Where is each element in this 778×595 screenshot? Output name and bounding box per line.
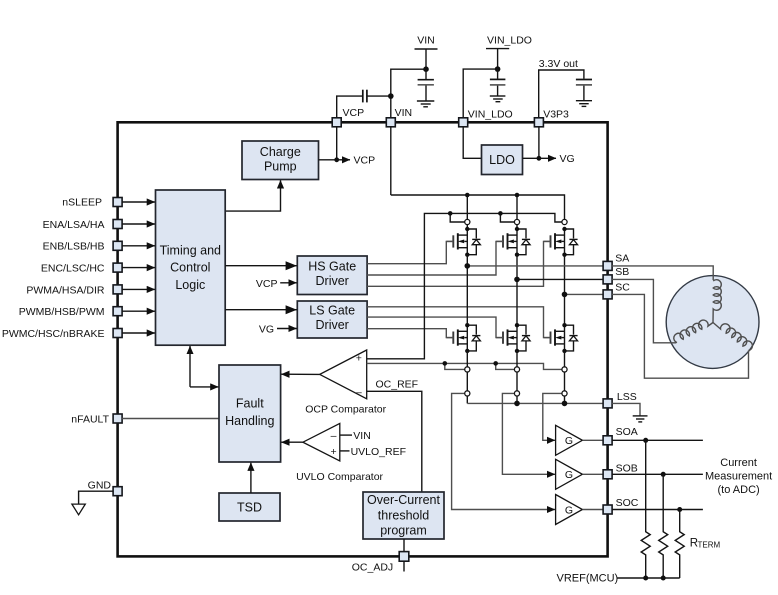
net label VIN (UVLO minus input) bbox=[340, 434, 352, 436]
pin SB (right border) bbox=[603, 275, 612, 284]
wire VIN rail drop to Q2 bbox=[516, 195, 518, 229]
wire over-current block to OC_ADJ pin bbox=[403, 539, 405, 552]
wire G3 output to SOC pin bbox=[582, 509, 603, 511]
svg-text:VIN_LDO: VIN_LDO bbox=[468, 108, 513, 120]
svg-text:Fault: Fault bbox=[236, 397, 264, 411]
pin SC (right border) bbox=[603, 290, 612, 299]
pin PWMC/HSC/nBRAKE bbox=[113, 329, 122, 338]
svg-text:LDO: LDO bbox=[489, 153, 515, 167]
svg-text:PWMA/HSA/DIR: PWMA/HSA/DIR bbox=[26, 284, 105, 296]
wire VIN flag to VIN pin bbox=[391, 69, 426, 118]
svg-text:–: – bbox=[356, 386, 362, 398]
wire rail elbow to Q4 source circle bbox=[445, 363, 465, 369]
wire LDO output to VG bbox=[523, 157, 539, 159]
wire sense tap to SOB amp bbox=[502, 393, 555, 474]
svg-text:Logic: Logic bbox=[175, 278, 205, 292]
wire VREF net bbox=[617, 577, 680, 579]
wire ENA to timing logic bbox=[122, 223, 155, 225]
svg-text:TERM: TERM bbox=[698, 541, 721, 550]
wire PWMB to timing logic bbox=[122, 310, 155, 312]
wire SC net to pin bbox=[565, 293, 604, 295]
op-amp G1 (SOA current sense) bbox=[556, 425, 583, 455]
resistor R_TERM A bbox=[641, 440, 650, 578]
svg-text:UVLO_REF: UVLO_REF bbox=[351, 446, 406, 458]
pin PWMB/HSB/PWM bbox=[113, 307, 122, 316]
node VREF junction A bbox=[643, 576, 648, 581]
svg-text:SB: SB bbox=[615, 266, 629, 278]
node terminal circle amp tap B bbox=[514, 391, 519, 396]
pin VIN (top border) bbox=[386, 118, 395, 127]
wire LS driver output 2 to Q5 gate bbox=[367, 317, 503, 338]
wire VCP cap to VIN feed bbox=[367, 95, 391, 97]
wire SA net to pin bbox=[467, 265, 603, 267]
node terminal circle amp tap C bbox=[562, 391, 567, 396]
wire OC_REF (OCP minus input to over-current block) bbox=[367, 391, 422, 492]
wire timing to fault handling (double arrow) bbox=[189, 346, 191, 387]
block TSD bbox=[219, 493, 280, 521]
wire HS driver output 1 to Q1 gate bbox=[367, 241, 453, 263]
wire VIN rail drop to Q1 bbox=[466, 195, 468, 229]
pin PWMA/HSA/DIR bbox=[113, 285, 122, 294]
wire LS source verticals down to LSS rail bbox=[466, 351, 468, 404]
svg-text:PWMB/HSB/PWM: PWMB/HSB/PWM bbox=[19, 306, 105, 318]
node rail2 junction B bbox=[498, 211, 503, 216]
node LSS junction C bbox=[562, 401, 568, 407]
wire sense tap to SOA amp bbox=[543, 393, 562, 440]
pin VIN_LDO (top border) bbox=[459, 118, 468, 127]
node LSS junction B bbox=[514, 401, 520, 407]
wire sense tap to SOC amp bbox=[452, 393, 555, 509]
capacitor 3.3V out bbox=[576, 80, 592, 101]
svg-text:(to ADC): (to ADC) bbox=[718, 484, 760, 496]
wire LS driver output 1 to Q6 gate bbox=[367, 307, 550, 338]
svg-text:program: program bbox=[380, 524, 427, 538]
wire LSS pin to ground bbox=[612, 403, 640, 415]
ground (VIN cap) bbox=[417, 101, 434, 107]
op-amp G3 (SOC current sense) bbox=[556, 495, 583, 525]
svg-text:VREF(MCU): VREF(MCU) bbox=[557, 572, 619, 584]
transistor Q5 (low-side B, with body diode) bbox=[496, 323, 530, 353]
node sense rail junction B bbox=[493, 361, 498, 366]
ground (3.3V cap) bbox=[576, 101, 592, 107]
transistor Q6 (low-side C, with body diode) bbox=[544, 323, 578, 353]
resistor R_TERM C bbox=[675, 510, 684, 579]
block LDO bbox=[482, 145, 523, 175]
wire VIN pin into bridge bbox=[390, 127, 392, 195]
svg-text:SOA: SOA bbox=[616, 426, 638, 438]
wire HS driver output 2 to Q2 gate bbox=[367, 241, 503, 275]
wire phase C vertical bbox=[564, 255, 566, 326]
svg-text:–: – bbox=[331, 430, 337, 442]
wire TSD to fault handling bbox=[250, 463, 252, 493]
svg-text:ENB/LSB/HB: ENB/LSB/HB bbox=[43, 241, 105, 253]
block Over-Current threshold program bbox=[363, 492, 444, 539]
node cap/VIN feed junction bbox=[388, 93, 394, 99]
capacitor VIN bypass bbox=[418, 69, 434, 100]
svg-text:SA: SA bbox=[615, 252, 629, 264]
wire VIN_LDO flag to VIN_LDO pin bbox=[463, 69, 497, 118]
pin LSS (right border) bbox=[603, 399, 612, 408]
svg-text:OC_REF: OC_REF bbox=[376, 378, 419, 390]
svg-text:Timing and: Timing and bbox=[160, 243, 221, 257]
pin GND bbox=[113, 487, 122, 496]
block LS Gate Driver bbox=[297, 301, 367, 338]
svg-text:VG: VG bbox=[259, 323, 274, 335]
wire SB pin to motor winding B bbox=[612, 279, 676, 342]
power flag VIN (top) bbox=[415, 35, 438, 70]
svg-text:Driver: Driver bbox=[316, 274, 349, 288]
svg-text:G: G bbox=[565, 435, 573, 447]
block Timing and Control Logic bbox=[156, 190, 226, 345]
svg-text:OC_ADJ: OC_ADJ bbox=[352, 561, 393, 573]
svg-text:PWMC/HSC/nBRAKE: PWMC/HSC/nBRAKE bbox=[2, 328, 105, 340]
wire SA pin to motor winding A bbox=[612, 266, 713, 280]
wire SC pin to motor winding C bbox=[612, 294, 749, 378]
wire VCP pin to charge pump output bbox=[336, 127, 338, 160]
svg-text:VCP: VCP bbox=[256, 278, 278, 290]
power flag VIN_LDO (top) bbox=[486, 35, 532, 70]
pin ENA/LSA/HA bbox=[113, 220, 122, 229]
inductor winding A bbox=[713, 280, 721, 323]
pin SOB (right border) bbox=[603, 470, 612, 479]
wire OCP plus sense rail (bottom, to LS sources) bbox=[367, 363, 562, 369]
wire SOB to ADC bbox=[612, 473, 703, 475]
wire GND pin to ground symbol bbox=[79, 491, 114, 503]
wire nSLEEP to timing logic bbox=[122, 201, 155, 203]
node VIN_LDO junction bbox=[495, 66, 501, 72]
wire SB net to pin bbox=[517, 278, 603, 280]
node rail2 junction A bbox=[448, 211, 453, 216]
capacitor VIN_LDO bypass bbox=[490, 69, 506, 95]
wire nFAULT to fault handling bbox=[122, 418, 219, 420]
svg-text:Current: Current bbox=[720, 457, 757, 469]
svg-text:VIN: VIN bbox=[395, 107, 413, 119]
svg-text:G: G bbox=[565, 504, 573, 516]
node terminal circle Q3 drain bbox=[562, 219, 567, 224]
wire rail elbow to Q1 drain circle bbox=[450, 213, 465, 222]
block Charge Pump bbox=[242, 141, 319, 180]
node sense rail junction A bbox=[443, 361, 448, 366]
wire ENC to timing logic bbox=[122, 267, 155, 269]
node terminal circle Q2 drain bbox=[514, 219, 519, 224]
wire V3P3 pin to LDO output bbox=[538, 127, 540, 159]
svg-text:nSLEEP: nSLEEP bbox=[62, 196, 102, 208]
wire OCP comparator output to fault handling bbox=[281, 373, 319, 375]
op-amp G2 (SOB current sense) bbox=[556, 459, 583, 489]
svg-text:LSS: LSS bbox=[617, 391, 637, 403]
node VREF junction B bbox=[661, 576, 666, 581]
node SOB/RTERM junction bbox=[661, 472, 666, 477]
node SOC/RTERM junction bbox=[677, 507, 682, 512]
node VIN top junction bbox=[423, 66, 429, 72]
svg-text:SC: SC bbox=[615, 281, 630, 293]
wire phase B vertical bbox=[516, 255, 518, 326]
transistor Q4 (low-side A, with body diode) bbox=[446, 323, 480, 353]
wire OCP plus sense rail (top, to HS drains) bbox=[367, 213, 562, 358]
node terminal circle Q5 source tap bbox=[514, 367, 519, 372]
pin SOA (right border) bbox=[603, 436, 612, 445]
wire LSS rail bbox=[467, 402, 603, 404]
svg-text:SOB: SOB bbox=[616, 463, 638, 475]
wire HS driver output 3 to Q3 gate bbox=[367, 241, 550, 286]
svg-text:GND: GND bbox=[88, 479, 112, 491]
wire VIN rail (bridge top) bbox=[391, 195, 565, 219]
wire PWMA to timing logic bbox=[122, 288, 155, 290]
op-amp OCP comparator bbox=[320, 350, 367, 399]
node VIN rail junction B bbox=[515, 193, 520, 198]
svg-text:G: G bbox=[565, 469, 573, 481]
wire UVLO output to fault handling bbox=[281, 441, 303, 443]
svg-text:nFAULT: nFAULT bbox=[71, 413, 109, 425]
node SC junction bbox=[562, 292, 568, 298]
svg-text:Over-Current: Over-Current bbox=[367, 493, 440, 507]
annotation Current Measurement (to ADC) bbox=[705, 457, 772, 496]
pin VCP (top border) bbox=[332, 118, 341, 127]
svg-text:Handling: Handling bbox=[225, 414, 274, 428]
svg-text:OCP Comparator: OCP Comparator bbox=[305, 404, 386, 416]
wire charge pump output to VCP net bbox=[319, 159, 337, 161]
svg-text:ENC/LSC/HC: ENC/LSC/HC bbox=[41, 263, 105, 275]
node terminal circle Q1 drain bbox=[465, 219, 470, 224]
svg-text:VIN_LDO: VIN_LDO bbox=[487, 35, 532, 47]
svg-text:threshold: threshold bbox=[378, 508, 429, 522]
block HS Gate Driver bbox=[297, 256, 367, 295]
wire timing bus to HS gate driver bbox=[225, 265, 296, 267]
node terminal circle Q4 source tap bbox=[465, 367, 470, 372]
wire PWMC to timing logic bbox=[122, 332, 155, 334]
ground (LSS) bbox=[633, 416, 648, 422]
wire ENB to timing logic bbox=[122, 245, 155, 247]
node SOA/RTERM junction bbox=[643, 438, 648, 443]
wire SOA to ADC bbox=[612, 439, 703, 441]
node VIN rail junction A bbox=[465, 193, 470, 198]
inductor winding B bbox=[674, 320, 713, 343]
wire G1 output to SOA pin bbox=[582, 439, 603, 441]
svg-text:+: + bbox=[331, 446, 337, 458]
pin ENC/LSC/HC bbox=[113, 263, 122, 272]
node terminal circle amp tap A bbox=[465, 391, 470, 396]
wire VCP cap to VCP pin bbox=[337, 96, 363, 118]
wire 3.3V out to V3P3 pin and cap bbox=[539, 70, 584, 118]
transistor Q3 (high-side C, with body diode) bbox=[544, 227, 578, 257]
pin ENB/LSB/HB bbox=[113, 241, 122, 250]
svg-text:ENA/LSA/HA: ENA/LSA/HA bbox=[43, 219, 105, 231]
inductor winding C bbox=[713, 323, 752, 351]
capacitor VCP charge-pump (between VCP and VIN) bbox=[363, 90, 367, 103]
wire rail elbow to Q2 drain circle bbox=[500, 213, 514, 222]
node SA junction bbox=[465, 263, 471, 269]
pin SA (right border) bbox=[603, 261, 612, 270]
node terminal circle Q6 source tap bbox=[562, 367, 567, 372]
pin nFAULT bbox=[113, 414, 122, 423]
wire LS driver output 3 to Q4 gate bbox=[367, 329, 453, 338]
svg-text:+: + bbox=[356, 353, 362, 365]
svg-text:HS Gate: HS Gate bbox=[308, 259, 356, 273]
wire timing bus to LS gate driver bbox=[225, 309, 296, 311]
pin SOC (right border) bbox=[603, 505, 612, 514]
op-amp UVLO comparator bbox=[303, 423, 340, 461]
svg-text:VG: VG bbox=[560, 153, 575, 165]
svg-text:3.3V out: 3.3V out bbox=[539, 58, 578, 70]
transistor Q1 (high-side A, with body diode) bbox=[446, 227, 480, 257]
svg-text:Measurement: Measurement bbox=[705, 470, 772, 482]
svg-text:VCP: VCP bbox=[343, 107, 365, 119]
motor M1 (3-phase BLDC) bbox=[666, 276, 759, 369]
device boundary (main IC outline) bbox=[118, 122, 608, 556]
transistor Q2 (high-side B, with body diode) bbox=[496, 227, 530, 257]
svg-text:TSD: TSD bbox=[237, 500, 262, 514]
svg-text:Driver: Driver bbox=[316, 318, 349, 332]
net label UVLO_REF (UVLO plus input) bbox=[340, 450, 350, 452]
wire rail elbow to Q5 source circle bbox=[496, 363, 515, 369]
svg-text:Charge: Charge bbox=[260, 145, 301, 159]
svg-text:VCP: VCP bbox=[354, 155, 376, 167]
svg-text:LS Gate: LS Gate bbox=[309, 304, 355, 318]
resistor R_TERM B bbox=[659, 474, 668, 578]
block Fault Handling bbox=[219, 365, 281, 462]
pin V3P3 (top border) bbox=[534, 118, 543, 127]
svg-text:Pump: Pump bbox=[264, 160, 297, 174]
pin OC_ADJ (bottom border) bbox=[399, 552, 409, 562]
wire G2 output to SOB pin bbox=[582, 473, 603, 475]
ground (VIN_LDO cap) bbox=[490, 96, 506, 102]
wire phase A vertical bbox=[466, 255, 468, 326]
node SB junction bbox=[514, 277, 520, 283]
svg-text:UVLO Comparator: UVLO Comparator bbox=[296, 471, 383, 483]
svg-text:SOC: SOC bbox=[616, 497, 639, 509]
wire timing logic to charge pump bbox=[225, 180, 280, 211]
wire SOC to ADC bbox=[612, 509, 703, 511]
svg-text:VIN: VIN bbox=[353, 430, 371, 442]
ground GND (open triangle) bbox=[72, 504, 85, 515]
svg-text:VIN: VIN bbox=[417, 35, 435, 47]
pin nSLEEP bbox=[113, 198, 122, 207]
wire VIN_LDO pin to LDO input bbox=[463, 127, 481, 159]
svg-text:V3P3: V3P3 bbox=[543, 108, 569, 120]
svg-text:Control: Control bbox=[170, 261, 210, 275]
